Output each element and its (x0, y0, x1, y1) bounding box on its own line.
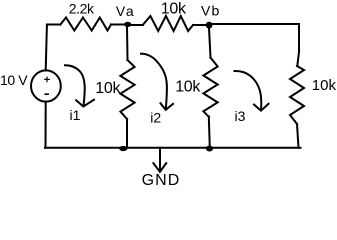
svg-text:10k: 10k (95, 80, 121, 97)
ground stem wire (159, 149, 161, 171)
resistor R4 10k vertical under Vb (203, 58, 217, 117)
svg-text:i3: i3 (235, 108, 246, 124)
minus sign of source (44, 93, 49, 95)
svg-text:Va: Va (116, 3, 135, 19)
mesh current arc i2 (141, 54, 167, 110)
svg-text:Vb: Vb (201, 3, 220, 19)
wire Vb resistor to bottom rail (209, 117, 210, 148)
bottom junction dot left (119, 146, 127, 151)
svg-text:i2: i2 (150, 110, 161, 126)
svg-text:10k: 10k (175, 78, 201, 95)
voltage source V1 circle (31, 70, 61, 101)
svg-text:i1: i1 (70, 107, 81, 123)
svg-text:10k: 10k (312, 77, 337, 94)
wire Va down to resistor (126, 27, 129, 60)
wire right resistor to bottom rail (297, 124, 299, 148)
resistor R1 2.2k horizontal (60, 18, 111, 31)
ground arrowhead (153, 163, 166, 172)
bottom junction dot right (206, 146, 213, 152)
wire 2.2k to node Va (111, 24, 127, 26)
arrowhead i3 (254, 104, 269, 111)
svg-text:GND: GND (142, 172, 181, 185)
wire source bottom lead (45, 102, 47, 148)
mesh current arc i3 (235, 71, 262, 110)
resistor R3 10k vertical under Va (120, 60, 134, 119)
mesh current arc i1 (65, 65, 85, 106)
wire node Vb to top-right corner (209, 24, 299, 66)
svg-text:10k: 10k (161, 0, 187, 17)
plus sign of source (44, 77, 50, 83)
node Vb junction dot (206, 22, 213, 29)
node Va junction dot (124, 22, 131, 27)
wire Va resistor to bottom rail (126, 119, 128, 148)
bottom rail wire (45, 147, 301, 149)
resistor R5 10k right vertical (290, 66, 304, 124)
arrowhead i1 (76, 100, 94, 107)
wire source top lead and top-left corner to 2.2k (46, 25, 61, 71)
svg-text:2.2k: 2.2k (69, 1, 95, 17)
arrowhead i2 (161, 103, 174, 110)
resistor R2 10k horizontal (143, 16, 193, 31)
svg-text:10 V: 10 V (0, 72, 28, 88)
wire 10k to node Vb (193, 24, 209, 26)
wire node Va to 10k R2 (127, 24, 143, 26)
wire Vb down to resistor (209, 28, 211, 58)
